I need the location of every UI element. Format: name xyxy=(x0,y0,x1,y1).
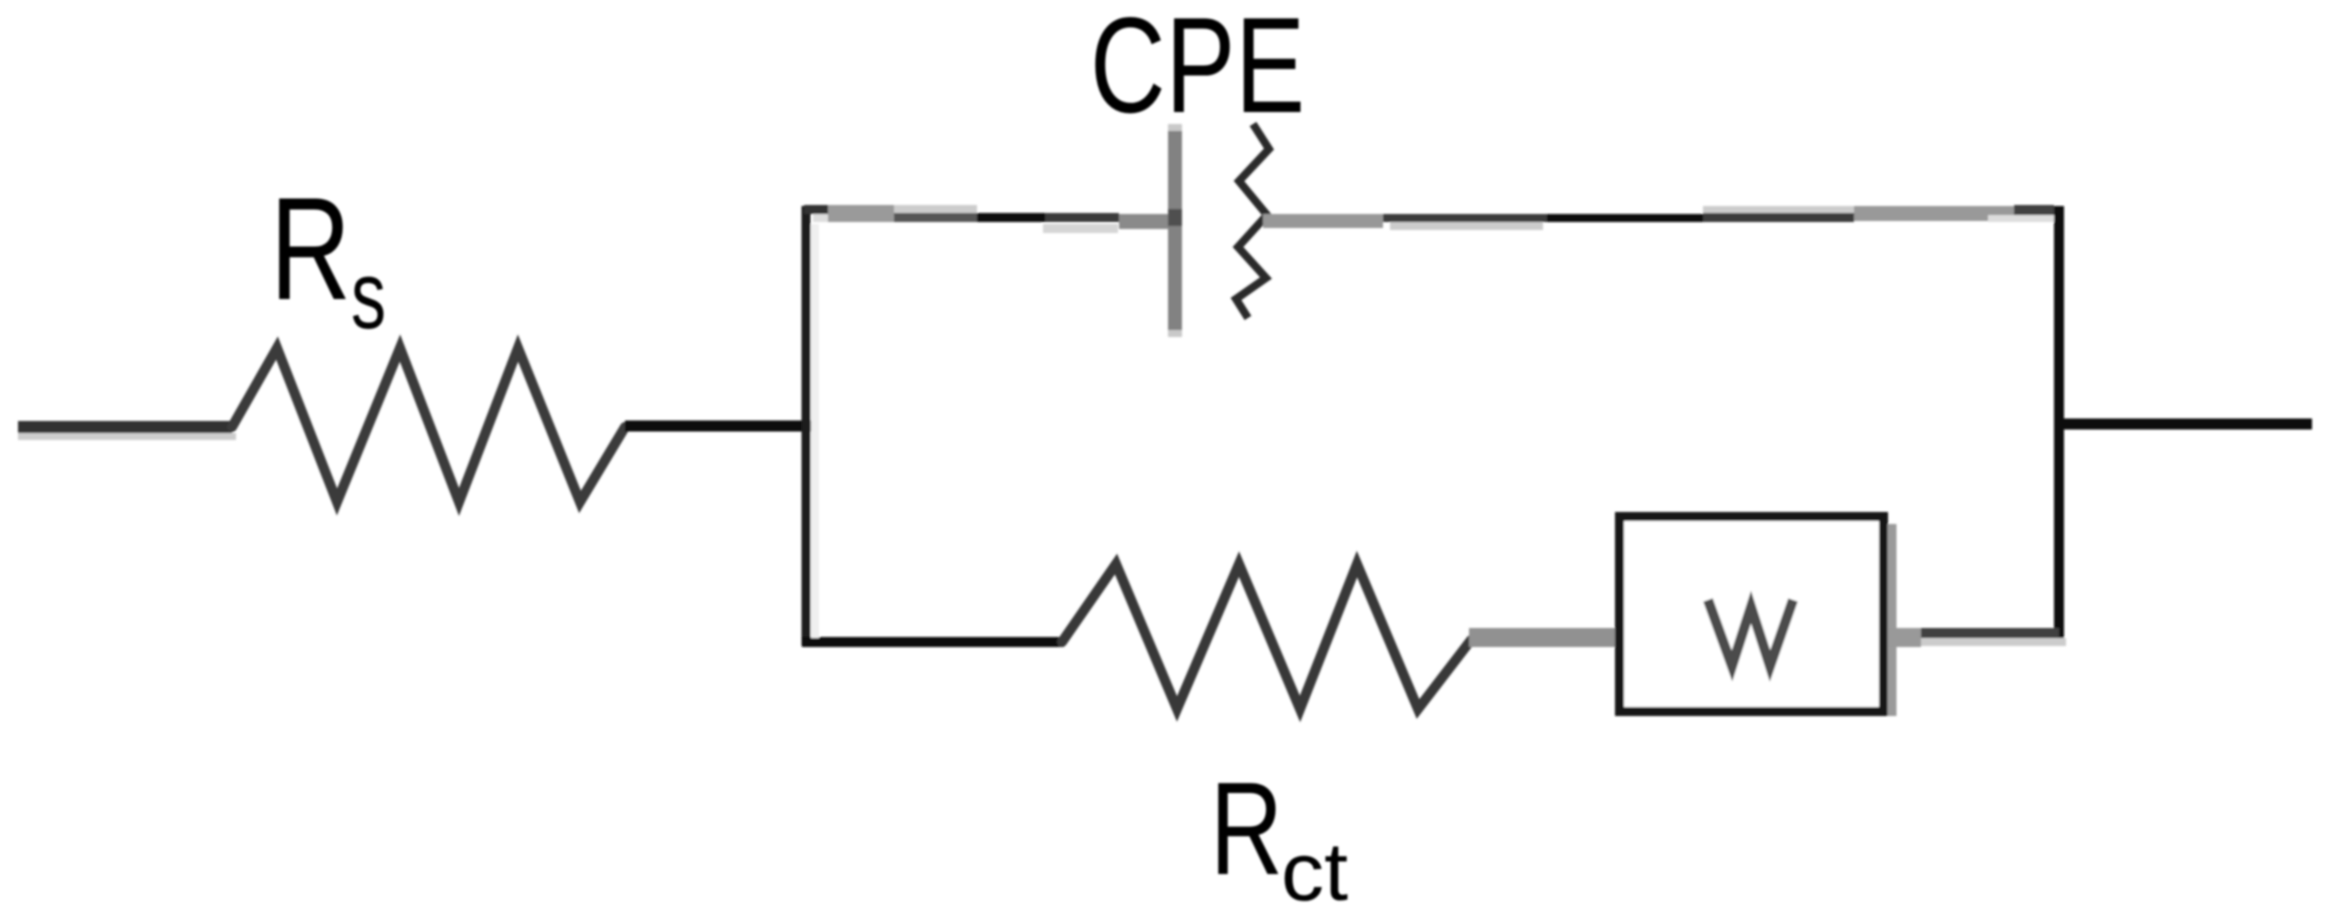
wire: output lead xyxy=(2054,419,2312,430)
wire: top branch gray tail at plate xyxy=(1119,214,1168,229)
svg-text:ct: ct xyxy=(1281,825,1348,918)
wire: top branch light over dark segment xyxy=(894,205,977,213)
wire: top branch gray segment right xyxy=(1854,206,2014,221)
wire: top branch black segment xyxy=(977,213,1045,222)
label w (Warburg) xyxy=(1708,600,1793,666)
wire: top branch corner light xyxy=(813,214,828,222)
svg-text:CPE: CPE xyxy=(1090,0,1305,141)
CPE plate wire crossing xyxy=(1168,209,1182,226)
wire: top branch under shadow xyxy=(1043,224,1118,233)
wire: top branch corner stub xyxy=(804,205,828,214)
wire: light shadow under gray wire xyxy=(1921,638,2066,646)
wire: top branch gray segment xyxy=(828,205,894,222)
wire: Warburg box to right vertical (gray) xyxy=(1888,628,1921,647)
wire: Warburg box to right vertical (dark) xyxy=(1921,628,2059,638)
resistor Rct xyxy=(1062,564,1471,709)
wire: left input lead xyxy=(18,421,232,433)
wire: parallel block left vertical xyxy=(802,206,811,646)
wire: left input lead shadow xyxy=(18,433,236,440)
svg-text:s: s xyxy=(351,242,386,349)
wire: top branch black segment right xyxy=(1383,214,1547,222)
svg-text:R: R xyxy=(1210,755,1283,902)
svg-text:R: R xyxy=(270,167,351,330)
wire: parallel block right vertical xyxy=(2054,206,2064,640)
wire: Rct to Warburg box xyxy=(1469,628,1621,647)
Warburg element box W xyxy=(1620,517,1884,712)
CPE squiggle element xyxy=(1236,124,1269,318)
wire: top branch gray right of CPE xyxy=(1263,214,1383,228)
wire: top branch dark end segment xyxy=(2014,205,2054,215)
wire: top branch light over dark segment right xyxy=(1703,206,1854,213)
resistor Rs xyxy=(232,348,625,502)
CPE capacitor plate xyxy=(1168,124,1182,337)
wire: left vertical light shadow xyxy=(811,224,819,638)
wire: Rs to parallel node xyxy=(625,421,811,432)
wire: bottom branch left xyxy=(802,637,1064,647)
Warburg box right shadow xyxy=(1888,524,1897,716)
wire: top branch light under end xyxy=(1988,215,2054,222)
